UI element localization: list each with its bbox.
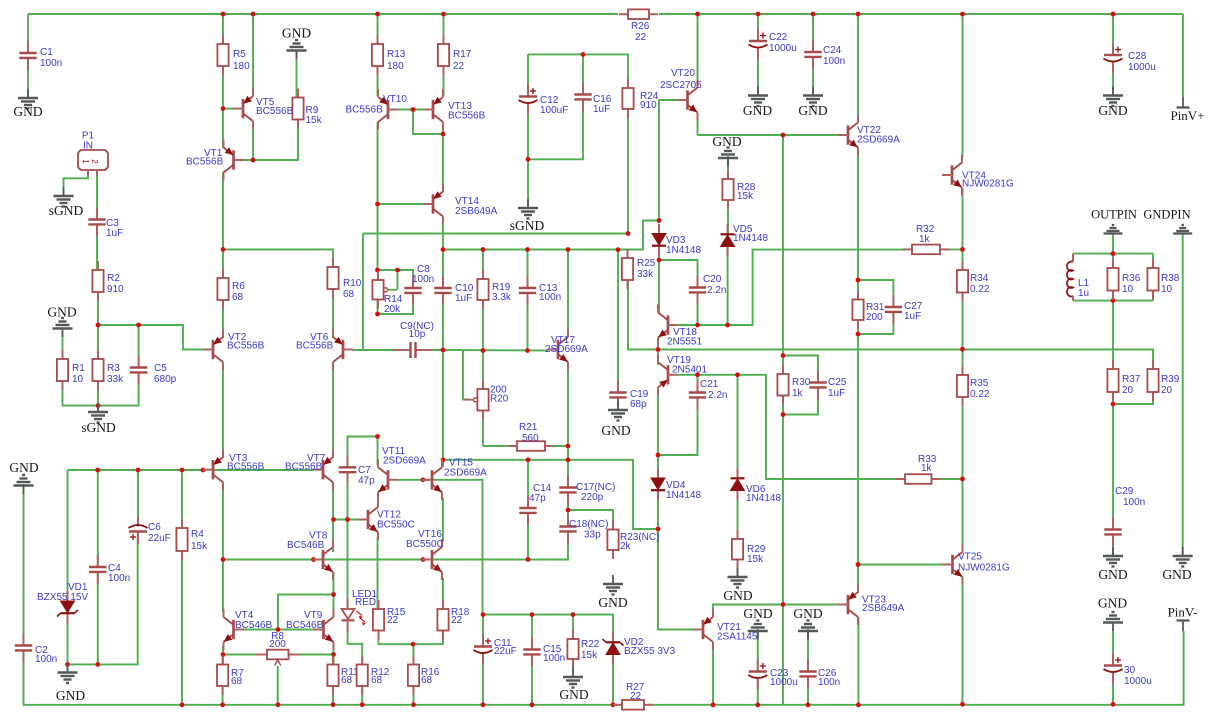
ground sGND <box>510 199 545 233</box>
svg-text:C21: C21 <box>700 379 719 390</box>
capacitor C22 (polarized) <box>749 29 797 59</box>
wire VT15 collector <box>442 460 444 467</box>
wire R17 to VT13 <box>443 66 445 96</box>
junction <box>806 703 811 708</box>
transistor VT25 <box>943 544 1010 585</box>
svg-text:1N4148: 1N4148 <box>666 490 701 501</box>
capacitor C15 <box>523 638 565 667</box>
resistor R23 <box>607 521 659 560</box>
wire C27 top link <box>858 280 893 296</box>
svg-text:C25: C25 <box>828 377 847 388</box>
wire R1 to sGND node <box>63 372 139 405</box>
wire node to VT25 <box>962 479 964 547</box>
capacitor C28 (polarized) <box>1104 43 1156 73</box>
svg-text:VT25: VT25 <box>958 552 982 563</box>
svg-text:100n: 100n <box>543 653 565 664</box>
wire C4 to gnd row <box>97 572 99 664</box>
resistor R37 <box>1107 360 1140 401</box>
wire GND to C23 <box>757 629 759 666</box>
svg-text:GND: GND <box>56 688 85 703</box>
wire VT8-C18 row <box>323 532 568 560</box>
wire R34 to rail <box>962 293 964 350</box>
resistor R30 <box>777 365 810 405</box>
svg-text:180: 180 <box>387 61 404 72</box>
junction <box>616 247 621 252</box>
wire R21 row right <box>545 445 568 447</box>
wire GNDPIN down <box>1182 234 1184 557</box>
wire VT24 emitter <box>962 188 964 249</box>
junction <box>221 247 226 252</box>
resistor R6 <box>217 269 245 309</box>
svg-text:1k: 1k <box>921 463 933 474</box>
diode VD6 <box>731 468 782 504</box>
wire input base row <box>68 469 204 471</box>
junction <box>725 323 730 328</box>
wire R16 to rail <box>413 686 415 705</box>
wire C26 to rail <box>807 676 809 705</box>
wire column to base row <box>782 415 784 605</box>
wire R30 C25 bottom <box>783 388 818 415</box>
junction <box>441 132 446 137</box>
svg-text:GND: GND <box>743 606 772 621</box>
ground GND <box>723 568 752 603</box>
transistor VT11 <box>378 446 426 500</box>
svg-text:200: 200 <box>866 312 883 323</box>
resistor R29 <box>732 530 766 569</box>
wire VT7 emitter <box>332 489 334 520</box>
junction <box>421 477 426 482</box>
resistor R21 <box>508 441 554 451</box>
wire R19 to R20 <box>482 300 484 389</box>
junction <box>136 323 141 328</box>
resistor R31 <box>852 291 884 330</box>
capacitor C16 <box>574 83 611 116</box>
transistor VT15 <box>422 458 487 501</box>
wire C3 to R2 <box>96 224 98 270</box>
wire C29 to GND <box>1112 537 1114 557</box>
wire VT4 emitter node <box>223 646 258 655</box>
svg-text:GND: GND <box>1098 103 1127 118</box>
capacitor C27 <box>885 295 923 324</box>
transistor VT17 <box>545 329 588 370</box>
wire VT19 emitter <box>657 388 659 455</box>
wire R25 drop <box>628 280 658 350</box>
svg-text:R37: R37 <box>1122 374 1141 385</box>
svg-text:GND: GND <box>798 103 827 118</box>
wire top V+ rail left <box>28 13 618 15</box>
svg-text:30: 30 <box>1124 665 1136 676</box>
label R21 <box>519 422 539 444</box>
svg-text:R3: R3 <box>107 363 120 374</box>
junction <box>180 468 185 473</box>
junction <box>481 702 486 707</box>
capacitor C24 <box>804 40 845 69</box>
svg-text:10p: 10p <box>409 329 426 340</box>
wire R39 return <box>1113 392 1153 404</box>
transistor VT2 <box>203 329 265 370</box>
svg-text:R5: R5 <box>233 49 246 60</box>
svg-text:BZX55 15V: BZX55 15V <box>37 592 88 603</box>
wire GND to R28 <box>727 156 729 179</box>
svg-text:R35: R35 <box>970 378 989 389</box>
resistor R35 <box>957 366 990 406</box>
svg-text:33k: 33k <box>637 269 654 280</box>
capacitor C1 <box>19 41 62 70</box>
resistor R11 <box>327 656 359 696</box>
resistor R16 <box>408 656 440 696</box>
svg-text:47p: 47p <box>529 493 546 504</box>
junction <box>530 702 535 707</box>
resistor R12 <box>357 656 390 696</box>
wire VT18 collector <box>658 260 660 313</box>
junction <box>441 457 446 462</box>
capacitor C11 (polarized) <box>474 635 517 665</box>
svg-text:15k: 15k <box>581 650 598 661</box>
junction <box>481 612 486 617</box>
svg-text:1000u: 1000u <box>769 43 797 54</box>
junction <box>525 247 530 252</box>
junction <box>136 468 141 473</box>
diode VD5 <box>721 224 769 257</box>
svg-text:2N5401: 2N5401 <box>672 365 707 376</box>
junction <box>201 468 206 473</box>
junction <box>375 434 380 439</box>
wire VT5 base <box>223 108 234 110</box>
potentiometer R8 <box>256 631 300 666</box>
wire column to rail <box>782 605 784 705</box>
svg-text:2k: 2k <box>620 541 632 552</box>
wire C1 to GND <box>27 58 29 97</box>
inductor L1 <box>1067 254 1090 301</box>
ground GND <box>793 606 822 640</box>
junction <box>781 353 786 358</box>
junction <box>411 107 416 112</box>
svg-text:GND: GND <box>9 460 38 475</box>
resistor R24 <box>622 79 658 118</box>
svg-text:R30: R30 <box>792 377 811 388</box>
junction <box>1111 702 1116 707</box>
wire R36 top <box>1112 254 1114 268</box>
wire VT10 emitter down <box>377 122 379 270</box>
svg-text:1uF: 1uF <box>828 388 845 399</box>
svg-text:22: 22 <box>387 615 399 626</box>
transistor VT8 <box>287 531 333 581</box>
svg-text:180: 180 <box>233 61 250 72</box>
wire R11 to rail <box>332 686 334 705</box>
pin GNDPIN <box>1143 208 1192 234</box>
wire C14 bottom <box>527 513 529 559</box>
svg-text:R34: R34 <box>970 273 989 284</box>
svg-text:2SB649A: 2SB649A <box>862 603 905 614</box>
wire C22 top <box>757 14 759 37</box>
svg-text:R21: R21 <box>519 422 538 433</box>
wire C25 top link <box>783 356 818 383</box>
wire sGND drop <box>527 159 529 208</box>
wire LED feed <box>347 520 349 610</box>
svg-text:15k: 15k <box>306 115 323 126</box>
transistor VT22 <box>838 115 900 156</box>
wire VT14 base <box>378 203 424 205</box>
junction <box>441 348 446 353</box>
svg-text:GND: GND <box>13 104 42 119</box>
wire node to R16 <box>413 644 415 664</box>
potentiometer R20 <box>464 380 509 420</box>
junction <box>345 517 350 522</box>
svg-text:68: 68 <box>371 675 383 686</box>
svg-text:100n: 100n <box>539 292 561 303</box>
svg-text:BC556B: BC556B <box>186 157 224 168</box>
svg-text:GND: GND <box>598 595 627 610</box>
junction <box>571 612 576 617</box>
wire filter top <box>1073 253 1153 255</box>
wire C15 top <box>531 615 533 645</box>
wire mid rail <box>443 221 659 250</box>
ground GND <box>56 664 85 704</box>
wire R18 bottom <box>442 631 444 645</box>
transistor VT21 <box>693 609 758 650</box>
wire VT6 emitter to VT7 <box>332 362 334 458</box>
wire VT22 emitter down <box>857 155 859 293</box>
junction <box>220 702 225 707</box>
ground GND <box>282 26 311 60</box>
label R26 <box>631 21 650 43</box>
wire R2 to node <box>97 292 99 325</box>
svg-text:100n: 100n <box>40 58 62 69</box>
capacitor C18 <box>559 515 608 544</box>
wire top V+ rail right <box>659 13 1183 15</box>
junction <box>331 702 336 707</box>
wire VT2 emitter to VT3 <box>222 362 224 458</box>
resistor R33 <box>896 474 941 484</box>
svg-text:C1: C1 <box>40 47 53 58</box>
svg-text:IN: IN <box>83 141 93 152</box>
wire VT21 emitter <box>712 643 714 705</box>
wire L1 top <box>1072 254 1074 262</box>
wire VT14 emitter <box>442 217 444 250</box>
junction <box>1111 298 1116 303</box>
wire C15 bottom <box>531 654 533 705</box>
junction <box>251 12 256 17</box>
wire R14 wiper riser <box>397 270 399 290</box>
resistor R1 <box>57 350 85 390</box>
svg-text:1k: 1k <box>792 388 804 399</box>
transistor VT18 <box>658 305 702 348</box>
svg-text:0.22: 0.22 <box>970 389 990 400</box>
resistor R26 <box>619 9 658 19</box>
svg-text:R1: R1 <box>72 363 85 374</box>
svg-text:68: 68 <box>421 675 433 686</box>
wire node to VT2 base <box>98 325 203 350</box>
wire R37 bottom <box>1112 392 1114 404</box>
wire VT1 base row <box>244 119 299 160</box>
svg-text:BC556B: BC556B <box>346 105 384 116</box>
svg-text:1: 1 <box>81 159 90 164</box>
wire C12 bottom row <box>528 100 583 159</box>
transistor VT1 <box>186 140 244 181</box>
capacitor C23 (polarized) <box>748 660 798 690</box>
svg-text:RED: RED <box>355 597 376 608</box>
junction <box>811 12 816 17</box>
svg-text:100n: 100n <box>108 573 130 584</box>
capacitor C14 <box>519 483 551 525</box>
wire R8 to VT9 emitter <box>297 654 334 656</box>
resistor R34 <box>957 261 990 302</box>
wire C11 C15 R22 row <box>483 615 613 643</box>
wire R31 C27 to base row <box>858 334 943 565</box>
wire C28 to GND <box>1112 67 1114 96</box>
svg-text:47p: 47p <box>358 476 375 487</box>
wire R36 bottom <box>1112 291 1114 301</box>
wire mid to R23 <box>568 510 613 530</box>
svg-text:BC546B: BC546B <box>287 540 325 551</box>
resistor R38 <box>1147 259 1179 300</box>
svg-text:20: 20 <box>1161 385 1173 396</box>
resistor R17 <box>438 35 472 75</box>
svg-text:33p: 33p <box>584 530 601 541</box>
label R33 <box>918 454 937 474</box>
resistor R25 <box>622 249 656 289</box>
svg-text:20k: 20k <box>384 304 401 315</box>
wire VT12 base row <box>334 519 361 521</box>
svg-text:22uF: 22uF <box>148 533 171 544</box>
svg-text:910: 910 <box>107 284 124 295</box>
wire R5 to VT1 collector <box>222 66 224 148</box>
svg-text:2: 2 <box>90 159 99 164</box>
svg-text:22: 22 <box>630 691 642 702</box>
svg-text:C5: C5 <box>154 363 167 374</box>
wire R12 to rail <box>361 686 363 705</box>
svg-text:C29: C29 <box>1115 486 1134 497</box>
wire rail to R17 <box>443 14 445 44</box>
zener VD2 <box>603 632 624 665</box>
wire VT24 collector <box>962 14 964 157</box>
svg-text:R2: R2 <box>107 273 120 284</box>
svg-text:C28: C28 <box>1128 51 1147 62</box>
svg-text:sGND: sGND <box>510 218 545 233</box>
wire C28 top <box>1112 14 1114 50</box>
svg-text:GND: GND <box>793 606 822 621</box>
junction <box>96 403 101 408</box>
svg-text:1uF: 1uF <box>455 293 472 304</box>
wire L1 bottom <box>1072 296 1074 301</box>
svg-text:1000u: 1000u <box>1124 676 1152 687</box>
wire R28 to VD5 <box>727 200 729 234</box>
transistor VT10 <box>346 89 408 130</box>
svg-text:PinV-: PinV- <box>1168 605 1198 620</box>
junction <box>856 278 861 283</box>
wire VT13 emitter <box>442 122 444 134</box>
svg-text:2SD669A: 2SD669A <box>444 468 487 479</box>
svg-text:BC556B: BC556B <box>256 106 294 117</box>
junction <box>711 703 716 708</box>
wire VD1 to GND node <box>67 614 69 672</box>
wire C24 to GND <box>812 59 814 96</box>
wire VD3 bottom node <box>658 245 660 260</box>
svg-text:20: 20 <box>1122 385 1134 396</box>
capacitor C13 <box>519 276 561 305</box>
wire node to C4 <box>97 470 99 567</box>
junction <box>96 323 101 328</box>
wire R32 right <box>946 248 963 250</box>
transistor VT5 <box>233 88 294 129</box>
wire VT22 collector <box>857 14 859 122</box>
svg-text:GND: GND <box>47 305 76 320</box>
wire R21 row left <box>483 445 517 447</box>
junction <box>960 702 965 707</box>
wire R15 R18 return <box>379 631 444 645</box>
zener VD1 <box>57 591 78 624</box>
capacitor C12 (polarized) <box>519 85 569 117</box>
wire filter bottom <box>1073 300 1153 302</box>
junction <box>276 702 281 707</box>
wire R38 top <box>1152 254 1154 268</box>
svg-text:2.2n: 2.2n <box>707 285 726 296</box>
wire R4 to bottom rail <box>181 551 183 705</box>
svg-text:2SB649A: 2SB649A <box>455 206 498 217</box>
svg-text:100n: 100n <box>35 654 57 665</box>
svg-text:1N4148: 1N4148 <box>746 493 781 504</box>
wire node to R3 <box>97 325 99 359</box>
wire node to C6 <box>137 470 139 526</box>
wire C11 bottom <box>482 655 484 705</box>
wire C12 top <box>527 54 529 91</box>
ground GND <box>712 134 741 167</box>
svg-text:BC550C: BC550C <box>406 539 444 550</box>
svg-text:C24: C24 <box>823 45 842 56</box>
resistor R28 <box>722 170 755 209</box>
wire VT15 collector row <box>443 460 658 529</box>
svg-text:2.2n: 2.2n <box>708 390 727 401</box>
junction <box>566 444 571 449</box>
junction <box>856 703 861 708</box>
svg-text:BC556B: BC556B <box>227 341 265 352</box>
junction <box>657 218 662 223</box>
junction <box>221 12 226 17</box>
capacitor C19 <box>609 381 648 411</box>
svg-text:sGND: sGND <box>49 203 84 218</box>
wire GND to C2 <box>23 484 25 645</box>
svg-text:R25: R25 <box>637 258 656 269</box>
ground GND <box>601 401 630 438</box>
wire VT11 collector <box>377 437 379 466</box>
junction <box>331 652 336 657</box>
wire C11 top <box>482 615 484 641</box>
svg-text:BC556B: BC556B <box>296 341 334 352</box>
junction <box>525 348 530 353</box>
junction <box>611 702 616 707</box>
junction <box>1111 402 1116 407</box>
wire base to collector link <box>413 110 443 135</box>
resistor R19 <box>477 270 512 309</box>
capacitor C29 <box>1104 486 1145 546</box>
wire R20 wiper <box>463 351 470 400</box>
svg-text:22uF: 22uF <box>494 646 517 657</box>
junction <box>566 247 571 252</box>
svg-text:100n: 100n <box>823 56 845 67</box>
junction <box>530 612 535 617</box>
ground GND <box>1098 87 1127 119</box>
wire VT25 emitter <box>962 577 964 704</box>
wire VT1 emitter to rail <box>222 172 224 278</box>
wire R14 bottom <box>377 300 379 315</box>
wire C13 bottom <box>527 293 529 351</box>
resistor R36 <box>1107 259 1140 300</box>
transistor VT16 <box>406 529 444 580</box>
wire C20 bottom <box>697 293 699 325</box>
wire VT19 collector <box>657 352 659 365</box>
wire VAS output rail <box>658 350 1153 370</box>
wire R8 wiper to rail <box>277 666 279 705</box>
